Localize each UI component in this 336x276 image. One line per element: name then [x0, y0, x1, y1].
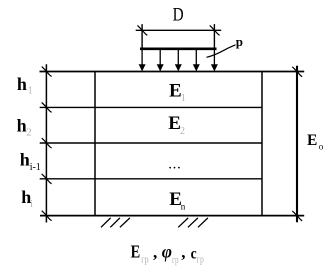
label En — [169, 189, 186, 211]
svg-text:h: h — [17, 115, 27, 135]
svg-text:D: D — [173, 5, 184, 26]
bottom boundary line — [40, 215, 304, 217]
svg-text:...: ... — [169, 160, 182, 172]
left tick at layer 1-2 — [42, 103, 52, 113]
left tick at layer 2-3 — [42, 138, 52, 148]
svg-text:1: 1 — [181, 93, 186, 104]
svg-text:h: h — [20, 149, 30, 169]
svg-text:h: h — [17, 74, 27, 94]
footing left edge / extension line — [141, 24, 143, 49]
footing base (thick line) — [140, 47, 217, 50]
inner vertical line left — [94, 72, 96, 216]
label E2 — [168, 113, 185, 137]
svg-text:,: , — [153, 243, 157, 262]
svg-text:n: n — [181, 201, 186, 211]
dimension tick left — [137, 25, 147, 35]
svg-text:φ: φ — [162, 242, 172, 262]
label Eo (right) — [307, 132, 324, 151]
hatch group B slash 2 — [188, 218, 198, 227]
label h i — [21, 187, 33, 210]
hatch group A slash 2 — [110, 218, 120, 227]
svg-text:гр: гр — [141, 254, 148, 265]
load label p — [236, 34, 243, 49]
hatch group A slash 3 — [120, 218, 130, 227]
load arrow 1 — [139, 50, 146, 71]
left tick at bottom — [42, 211, 52, 221]
label h i-1 — [20, 149, 41, 173]
load arrow 4 — [193, 50, 200, 71]
footing right edge / extension line — [213, 24, 215, 49]
svg-text:E: E — [307, 132, 317, 149]
left tick at ground — [42, 67, 52, 77]
svg-text:p: p — [236, 34, 243, 49]
ground surface line — [40, 71, 305, 73]
svg-text:c: c — [191, 245, 197, 262]
leader line to p — [207, 45, 236, 58]
label E1 — [169, 81, 186, 104]
svg-text:E: E — [131, 242, 141, 262]
right dimension line (total depth) — [296, 66, 298, 223]
dimension line D (top edge of footing) — [136, 29, 222, 31]
load arrow 2 — [157, 50, 164, 71]
load arrow 5 — [211, 50, 218, 71]
svg-text:гр: гр — [172, 255, 179, 266]
label h2 — [17, 115, 32, 138]
svg-text:E: E — [169, 81, 182, 102]
dimension label D — [173, 5, 184, 26]
svg-text:1: 1 — [28, 86, 33, 97]
bottom label E gr, phi gr, c gr — [131, 242, 204, 266]
svg-text:гр: гр — [197, 254, 204, 265]
right tick at bottom — [292, 211, 302, 221]
label h1 — [17, 74, 33, 97]
svg-text:i: i — [30, 199, 33, 210]
layer boundary line 1-2 — [40, 106, 262, 108]
layer 3 dots — [169, 160, 182, 172]
right tick at top — [292, 67, 302, 77]
load arrow 3 — [175, 50, 182, 71]
svg-text:o: o — [319, 141, 324, 151]
svg-text:2: 2 — [180, 126, 185, 137]
left dimension line (h stack) — [45, 64, 47, 222]
dimension tick right — [210, 25, 220, 35]
svg-text:2: 2 — [26, 127, 32, 139]
layer boundary line 3-4 — [40, 178, 262, 180]
svg-text:,: , — [181, 243, 185, 262]
inner vertical line right — [261, 72, 263, 216]
svg-text:i-1: i-1 — [30, 162, 41, 173]
hatch group B slash 1 — [178, 218, 188, 227]
hatch group A slash 1 — [101, 218, 111, 227]
left tick at layer 3-4 — [42, 174, 52, 184]
layer boundary line 2-3 — [40, 142, 262, 144]
hatch group B slash 3 — [198, 218, 208, 227]
